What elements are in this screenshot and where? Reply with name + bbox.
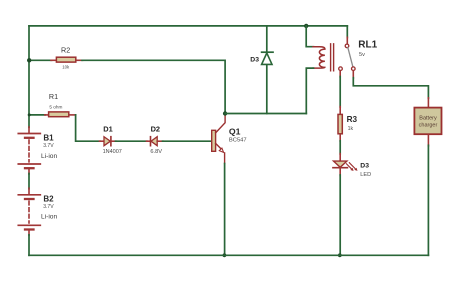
- transistor Q1 emitter lead: [216, 143, 222, 149]
- battery B2 plate 2 long: [18, 224, 40, 226]
- wire right contact to charger: [353, 78, 428, 99]
- wire R1 pin left: [45, 114, 48, 116]
- wire R3 pin top: [339, 107, 341, 114]
- wire left contact to R3: [339, 77, 341, 108]
- wire B2 to bottom rail: [28, 235, 30, 256]
- transistor Q1 emitter arrow: [219, 148, 223, 152]
- wire collector row: [225, 113, 306, 115]
- wire left contact pin: [339, 71, 341, 77]
- transistor Q1 emitter pin: [224, 153, 226, 164]
- wire charger to bottom rail: [427, 145, 429, 255]
- battery B2 plate 1 short: [25, 198, 34, 200]
- LED D3 body: [334, 161, 347, 167]
- svg-text:LED: LED: [360, 172, 371, 178]
- svg-text:10k: 10k: [62, 65, 70, 70]
- wire zener bottom: [266, 65, 268, 114]
- transistor Q1 base bar: [212, 130, 216, 151]
- resistor R1: [49, 112, 69, 117]
- battery B1 plate 2 long: [18, 163, 40, 165]
- resistor R2: [56, 57, 75, 62]
- wire B2 bottom stub: [28, 231, 30, 236]
- wire D1 pin left: [100, 140, 105, 142]
- wire D2 pin left: [147, 140, 151, 142]
- node junction left rail / R1: [28, 113, 31, 116]
- diode D3 cathode bar (zener): [262, 51, 273, 53]
- wire R1 row left: [29, 114, 45, 116]
- svg-text:3.7V: 3.7V: [43, 204, 54, 210]
- battery B1 dashed link: [28, 140, 30, 162]
- svg-text:5v: 5v: [359, 52, 365, 58]
- diode D2 cathode bar: [150, 137, 152, 146]
- svg-text:1N4007: 1N4007: [103, 149, 122, 155]
- wire Q1 emitter to bottom rail: [224, 164, 226, 256]
- svg-text:R1: R1: [49, 92, 58, 101]
- diode D1: [104, 137, 110, 146]
- svg-text:5 ohm: 5 ohm: [49, 105, 62, 110]
- LED D3 arrow 2: [349, 163, 355, 169]
- wire LED to bottom rail: [339, 175, 341, 255]
- relay RL1 coil: [313, 47, 325, 68]
- svg-text:Battery: Battery: [419, 115, 437, 121]
- wire relay coil bottom: [306, 68, 313, 113]
- svg-text:R3: R3: [347, 115, 358, 124]
- resistor R3: [338, 114, 342, 133]
- wire R3 pin bottom: [339, 135, 341, 142]
- node junction Q1 collector: [223, 111, 227, 115]
- diode D2: [151, 137, 157, 146]
- wire top rail: [29, 25, 347, 27]
- svg-text:RL1: RL1: [358, 39, 377, 50]
- svg-text:B2: B2: [43, 195, 54, 204]
- wire charger pin top: [427, 98, 429, 108]
- battery B2 plate 2 short: [25, 228, 34, 230]
- wire R2 row right: [82, 60, 225, 113]
- relay RL1 contact left: [339, 67, 343, 71]
- wire right contact pin: [352, 71, 354, 79]
- node junction LED / bottom rail: [338, 253, 342, 257]
- wire D1 pin right: [111, 140, 116, 142]
- wire B1 bottom stub: [28, 169, 30, 174]
- wire zener top: [266, 26, 268, 52]
- wire D1 to D2: [116, 140, 148, 142]
- svg-text:BC547: BC547: [229, 138, 247, 144]
- wire B2 top stub: [28, 188, 30, 194]
- relay RL1 pole contact: [345, 44, 349, 48]
- wire bottom rail: [29, 254, 428, 256]
- svg-text:Li-ion: Li-ion: [41, 213, 57, 220]
- wire R1 pin right: [70, 114, 76, 116]
- battery B1 plate 1 long: [18, 133, 40, 135]
- wire switch pole pin: [346, 37, 348, 44]
- node junction left rail / R2: [27, 58, 31, 62]
- transistor Q1 collector lead: [216, 114, 226, 133]
- LED D3 arrow 1: [346, 164, 351, 169]
- battery B2 plate 1 long: [18, 194, 40, 196]
- LED D3 cathode bar: [333, 167, 347, 169]
- wire LED pin top: [339, 154, 341, 161]
- battery B1 plate 1 short: [25, 137, 34, 139]
- svg-text:R2: R2: [61, 45, 70, 54]
- svg-text:3.7V: 3.7V: [43, 143, 54, 149]
- wire R2 pin left: [51, 59, 56, 61]
- svg-text:Li-ion: Li-ion: [41, 153, 57, 160]
- relay RL1 lever: [348, 48, 353, 67]
- wire LED pin bottom: [339, 168, 341, 176]
- diode D1 cathode bar: [110, 137, 112, 146]
- wire R1 to diode row: [76, 115, 100, 141]
- svg-text:D1: D1: [103, 124, 112, 133]
- node junction emitter / bottom rail: [223, 253, 227, 257]
- wire left rail to B1: [28, 127, 30, 133]
- wire switch pole from top rail: [346, 26, 348, 38]
- svg-text:B1: B1: [43, 134, 54, 143]
- svg-text:1k: 1k: [348, 126, 354, 132]
- battery charger block: [414, 108, 441, 135]
- wire B1 to B2: [28, 174, 30, 189]
- relay RL1 contact right: [352, 67, 356, 71]
- battery B2 dashed link: [28, 201, 30, 223]
- wire D2 pin right: [157, 140, 163, 142]
- wire charger pin bottom: [427, 135, 429, 146]
- battery B1 plate 2 short: [25, 167, 34, 169]
- wire relay coil top: [306, 26, 313, 47]
- svg-text:D2: D2: [151, 124, 160, 133]
- svg-text:Q1: Q1: [229, 126, 241, 136]
- wire D2 to Q1 base: [163, 140, 212, 142]
- svg-text:6.8V: 6.8V: [150, 149, 162, 155]
- wire left rail: [28, 26, 30, 127]
- wire R3 to LED: [339, 141, 341, 154]
- wire R2 row left: [29, 59, 52, 61]
- svg-text:D3: D3: [360, 163, 369, 170]
- diode D3 (zener): [262, 53, 272, 64]
- svg-text:D3: D3: [250, 57, 259, 64]
- node junction relay coil / top rail: [304, 24, 308, 28]
- svg-text:charger: charger: [419, 122, 438, 128]
- wire R2 pin right: [77, 59, 83, 61]
- relay RL1 core: [331, 44, 334, 71]
